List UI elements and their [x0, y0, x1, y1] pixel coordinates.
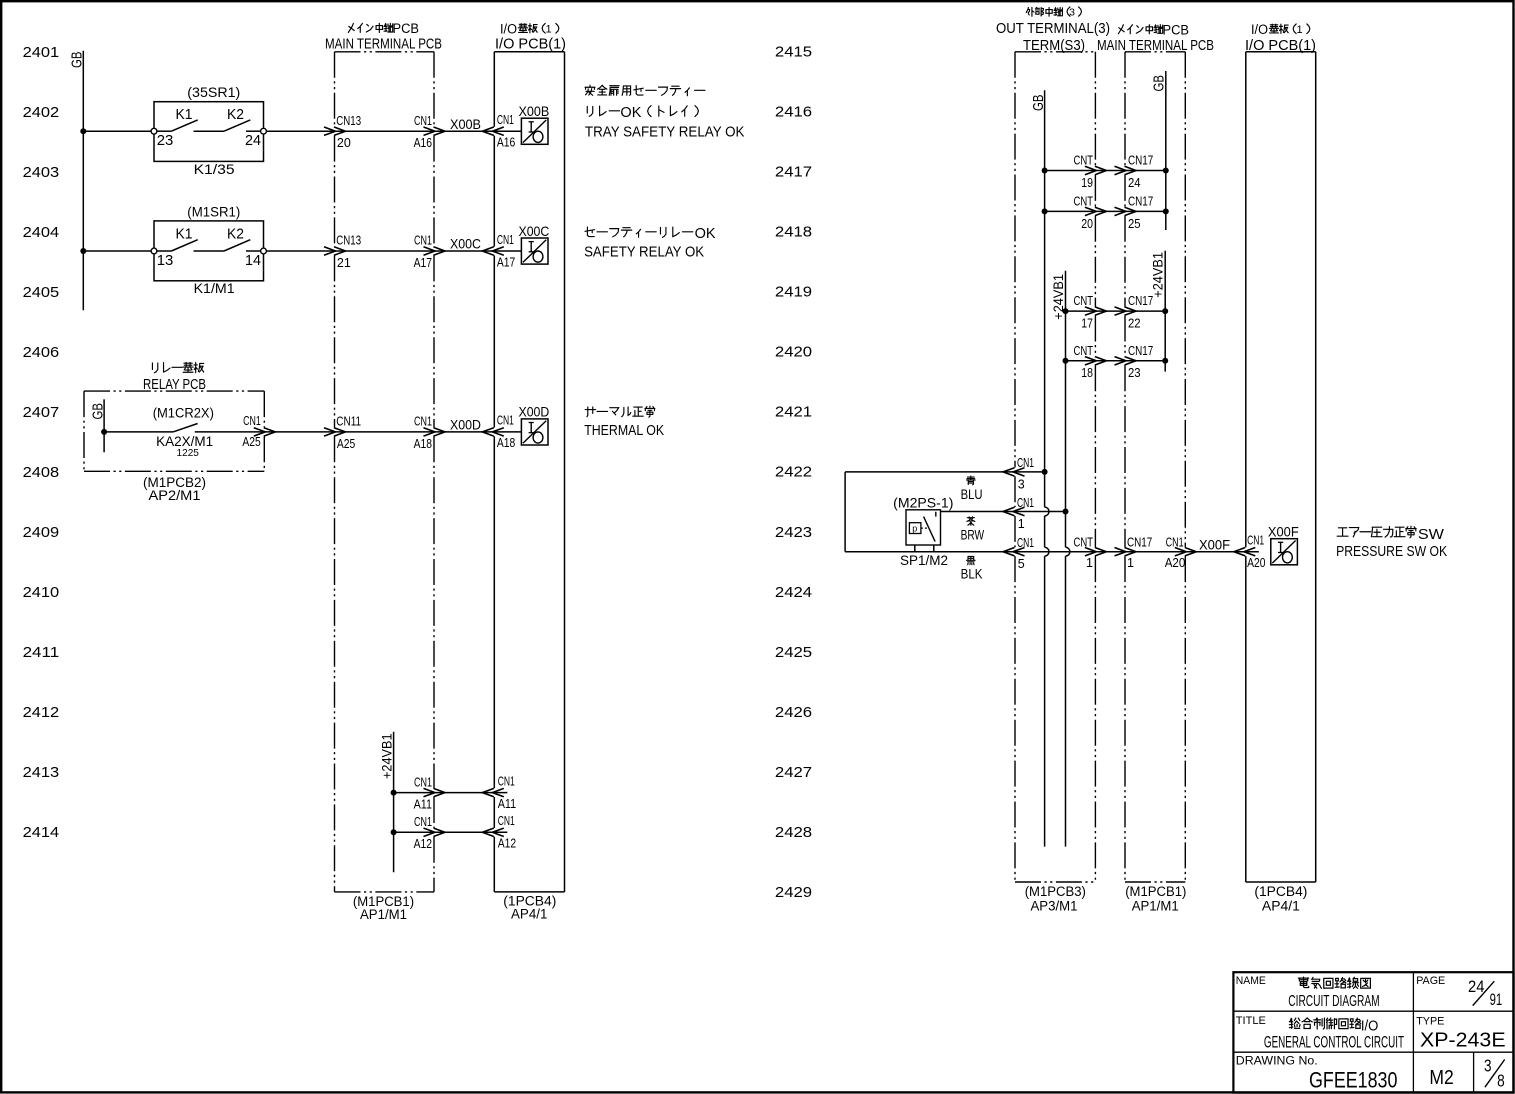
svg-text:1: 1: [545, 23, 551, 35]
svg-text:CN1: CN1: [497, 113, 514, 127]
svg-text:M2: M2: [1429, 1066, 1453, 1089]
svg-text:2415: 2415: [775, 44, 812, 61]
svg-text:2414: 2414: [23, 824, 60, 841]
svg-text:2401: 2401: [23, 44, 60, 61]
svg-text:p: p: [912, 524, 917, 534]
svg-text:BLU: BLU: [961, 486, 983, 502]
svg-text:AP2/M1: AP2/M1: [149, 488, 201, 503]
svg-text:MAIN TERMINAL PCB: MAIN TERMINAL PCB: [325, 37, 442, 53]
svg-text:18: 18: [1081, 366, 1093, 380]
svg-text:K2: K2: [227, 106, 244, 123]
svg-text:2412: 2412: [23, 704, 60, 721]
svg-text:CN1: CN1: [498, 814, 515, 828]
svg-text:1: 1: [1018, 517, 1025, 531]
svg-text:21: 21: [337, 256, 351, 270]
svg-text:K1/35: K1/35: [194, 161, 235, 177]
svg-text:CN1: CN1: [1017, 536, 1034, 550]
svg-text:5: 5: [1018, 557, 1025, 571]
svg-text:GB: GB: [89, 403, 106, 420]
svg-text:2402: 2402: [23, 104, 60, 121]
svg-text:GB: GB: [1030, 95, 1047, 112]
svg-text:GB: GB: [1151, 75, 1168, 92]
svg-text:CNT: CNT: [1074, 536, 1094, 550]
svg-text:K1: K1: [176, 226, 193, 243]
svg-text:CN17: CN17: [1128, 294, 1153, 308]
svg-text:24: 24: [245, 132, 261, 149]
svg-text:CNT: CNT: [1074, 294, 1094, 308]
svg-text:24: 24: [1128, 176, 1141, 190]
svg-text:CN1: CN1: [498, 774, 515, 788]
svg-text:20: 20: [1081, 217, 1093, 231]
svg-text:2422: 2422: [775, 464, 812, 481]
svg-text:CN1: CN1: [497, 233, 514, 247]
svg-text:CN13: CN13: [336, 234, 361, 248]
svg-text:2416: 2416: [775, 104, 812, 121]
svg-text:SW: SW: [1418, 526, 1445, 543]
svg-text:A25: A25: [242, 435, 260, 449]
svg-text:CN1: CN1: [414, 815, 432, 829]
svg-text:2404: 2404: [23, 224, 60, 241]
svg-text:1: 1: [1296, 24, 1302, 36]
svg-text:PCB: PCB: [1163, 23, 1190, 38]
svg-text:(35SR1): (35SR1): [187, 84, 240, 100]
svg-text:1: 1: [1086, 556, 1093, 570]
svg-text:+24VB1: +24VB1: [379, 733, 394, 779]
svg-text:2426: 2426: [775, 704, 812, 721]
svg-text:2428: 2428: [775, 824, 812, 841]
svg-text:CN13: CN13: [336, 114, 361, 128]
svg-text:X00F: X00F: [1268, 524, 1299, 540]
svg-text:+24VB1: +24VB1: [1151, 252, 1166, 298]
svg-text:I/O: I/O: [500, 22, 517, 37]
svg-text:13: 13: [157, 252, 174, 269]
svg-text:AP4/1: AP4/1: [1262, 898, 1300, 913]
svg-text:A20: A20: [1165, 556, 1186, 570]
svg-text:AP4/1: AP4/1: [511, 906, 547, 921]
svg-text:CN1: CN1: [414, 415, 432, 429]
svg-text:2421: 2421: [775, 404, 812, 421]
svg-text:GFEE1830: GFEE1830: [1309, 1068, 1397, 1093]
svg-text:25: 25: [1128, 217, 1141, 231]
svg-text:A16: A16: [497, 136, 515, 150]
svg-text:A25: A25: [337, 437, 355, 451]
svg-text:A11: A11: [498, 797, 516, 811]
svg-text:AP1/M1: AP1/M1: [1132, 898, 1179, 913]
svg-text:A18: A18: [497, 436, 515, 450]
svg-text:CNT: CNT: [1074, 344, 1094, 358]
svg-text:8: 8: [1497, 1070, 1505, 1090]
svg-text:22: 22: [1128, 317, 1141, 331]
svg-text:2423: 2423: [775, 524, 812, 541]
svg-text:2418: 2418: [775, 224, 812, 241]
svg-text:91: 91: [1490, 990, 1503, 1009]
svg-text:17: 17: [1081, 317, 1093, 331]
svg-text:2411: 2411: [23, 644, 60, 661]
svg-text:I/O: I/O: [1361, 1017, 1379, 1034]
svg-text:TITLE: TITLE: [1236, 1015, 1266, 1027]
svg-text:A18: A18: [414, 437, 432, 451]
svg-text:OK: OK: [620, 105, 641, 121]
svg-text:CN1: CN1: [243, 414, 261, 428]
svg-text:K1: K1: [176, 106, 193, 123]
svg-text:CN11: CN11: [336, 415, 361, 429]
svg-text:19: 19: [1081, 176, 1093, 190]
svg-text:CN1: CN1: [414, 234, 432, 248]
svg-text:A20: A20: [1247, 556, 1265, 570]
svg-text:2427: 2427: [775, 764, 812, 781]
svg-text:GB: GB: [69, 52, 86, 69]
svg-text:PAGE: PAGE: [1416, 975, 1445, 987]
svg-text:20: 20: [337, 136, 351, 150]
svg-text:3: 3: [1069, 6, 1075, 18]
svg-text:PRESSURE SW OK: PRESSURE SW OK: [1336, 544, 1447, 560]
svg-text:X00D: X00D: [450, 417, 481, 433]
svg-text:A12: A12: [414, 837, 432, 851]
svg-text:14: 14: [245, 252, 261, 269]
svg-text:2403: 2403: [23, 164, 60, 181]
svg-text:GENERAL CONTROL CIRCUIT: GENERAL CONTROL CIRCUIT: [1264, 1033, 1404, 1051]
svg-text:2408: 2408: [23, 464, 60, 481]
svg-text:2429: 2429: [775, 884, 812, 901]
svg-text:1225: 1225: [177, 447, 200, 459]
svg-text:A17: A17: [497, 255, 515, 269]
svg-text:X00B: X00B: [519, 103, 550, 119]
svg-text:XP-243E: XP-243E: [1420, 1028, 1506, 1051]
svg-text:X00C: X00C: [519, 223, 550, 239]
svg-text:2409: 2409: [23, 524, 60, 541]
svg-text:(M1CR2X): (M1CR2X): [153, 406, 214, 421]
svg-text:X00B: X00B: [450, 116, 481, 132]
svg-text:CN1: CN1: [414, 775, 432, 789]
svg-text:CN17: CN17: [1128, 194, 1153, 208]
svg-text:CN1: CN1: [1166, 536, 1184, 550]
svg-text:2413: 2413: [23, 764, 60, 781]
svg-text:CN1: CN1: [414, 114, 432, 128]
svg-text:3: 3: [1018, 477, 1025, 491]
svg-text:AP3/M1: AP3/M1: [1031, 898, 1078, 913]
svg-text:CN17: CN17: [1128, 344, 1153, 358]
svg-text:CIRCUIT DIAGRAM: CIRCUIT DIAGRAM: [1288, 993, 1379, 1010]
svg-text:(M1PCB3): (M1PCB3): [1025, 884, 1086, 899]
svg-text:THERMAL OK: THERMAL OK: [584, 423, 664, 439]
svg-text:2405: 2405: [23, 284, 60, 301]
svg-text:23: 23: [157, 132, 174, 149]
svg-text:NAME: NAME: [1236, 975, 1266, 987]
svg-text:2419: 2419: [775, 284, 812, 301]
svg-text:(M1PCB1): (M1PCB1): [1125, 884, 1186, 899]
svg-text:2406: 2406: [23, 344, 60, 361]
svg-text:K1/M1: K1/M1: [194, 280, 235, 296]
svg-text:1: 1: [1127, 556, 1134, 570]
svg-text:BLK: BLK: [961, 566, 983, 582]
svg-text:A12: A12: [498, 837, 516, 851]
svg-text:2410: 2410: [23, 584, 60, 601]
svg-text:SP1/M2: SP1/M2: [900, 553, 948, 568]
svg-text:24: 24: [1468, 977, 1484, 996]
svg-text:CNT: CNT: [1074, 154, 1094, 168]
svg-text:TYPE: TYPE: [1416, 1016, 1444, 1028]
svg-text:DRAWING No.: DRAWING No.: [1236, 1055, 1318, 1067]
svg-text:SAFETY RELAY OK: SAFETY RELAY OK: [584, 245, 704, 261]
svg-text:I/O PCB(1): I/O PCB(1): [495, 37, 566, 53]
svg-text:2407: 2407: [23, 404, 60, 421]
svg-text:2420: 2420: [775, 344, 812, 361]
svg-text:PCB: PCB: [393, 21, 420, 36]
svg-text:2417: 2417: [775, 164, 812, 181]
svg-text:X00F: X00F: [1199, 537, 1230, 553]
svg-text:CN17: CN17: [1127, 536, 1152, 550]
svg-text:(1PCB4): (1PCB4): [1254, 884, 1307, 899]
svg-text:(M1SR1): (M1SR1): [187, 203, 240, 219]
svg-text:A11: A11: [414, 798, 432, 812]
svg-text:TRAY SAFETY RELAY OK: TRAY SAFETY RELAY OK: [585, 125, 745, 141]
svg-text:RELAY PCB: RELAY PCB: [143, 377, 206, 393]
svg-text:CNT: CNT: [1074, 194, 1094, 208]
svg-text:OK: OK: [695, 226, 716, 242]
svg-text:CN1: CN1: [1017, 496, 1034, 510]
svg-text:K2: K2: [227, 226, 244, 243]
svg-text:23: 23: [1128, 366, 1141, 380]
svg-text:OUT TERMINAL(3): OUT TERMINAL(3): [996, 21, 1110, 37]
svg-text:A17: A17: [414, 256, 432, 270]
svg-text:CN1: CN1: [497, 414, 514, 428]
svg-text:2424: 2424: [775, 584, 812, 601]
svg-text:(M2PS-1): (M2PS-1): [893, 496, 953, 511]
svg-text:AP1/M1: AP1/M1: [360, 907, 407, 922]
svg-text:X00D: X00D: [519, 404, 550, 420]
svg-text:CN1: CN1: [1017, 456, 1034, 470]
svg-text:I/O: I/O: [1251, 22, 1268, 37]
svg-text:BRW: BRW: [961, 526, 985, 542]
svg-text:X00C: X00C: [450, 236, 481, 252]
svg-text:CN17: CN17: [1128, 154, 1153, 168]
svg-text:CN1: CN1: [1247, 534, 1264, 548]
svg-text:3: 3: [1484, 1056, 1492, 1076]
svg-text:2425: 2425: [775, 644, 812, 661]
svg-text:A16: A16: [414, 136, 432, 150]
